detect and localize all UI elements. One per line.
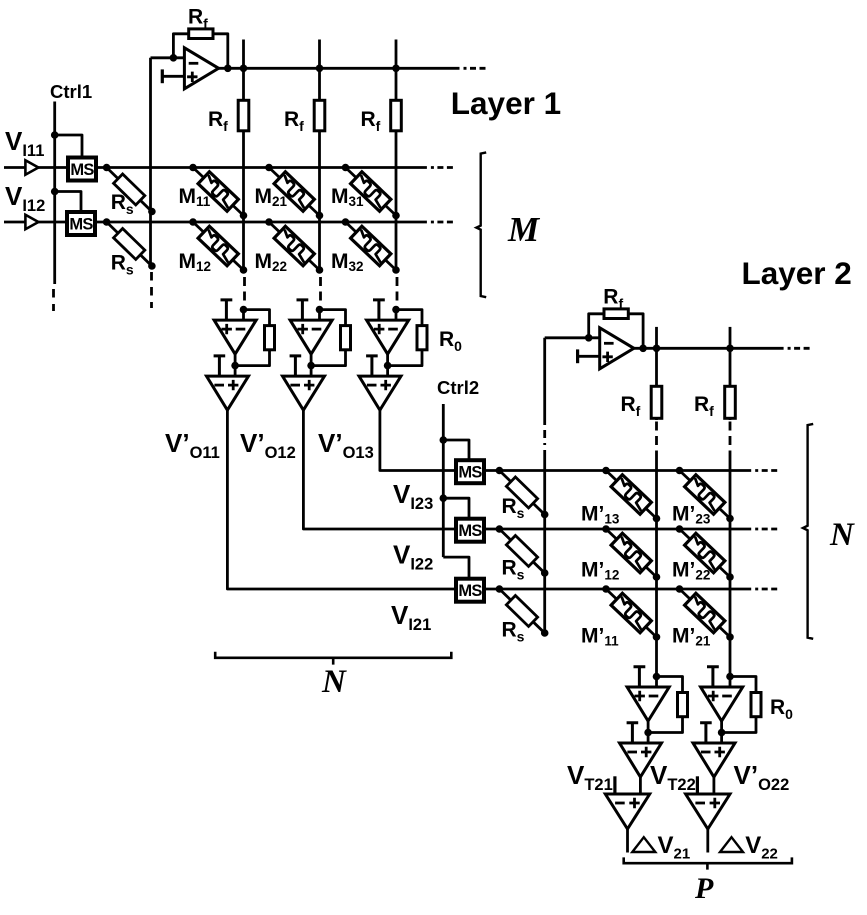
wire layer-1 column 1 [242, 68, 245, 271]
node U2 output [231, 362, 239, 370]
wire U2 output [234, 354, 237, 366]
wire layer-1 column 1 stub above output row [242, 40, 245, 69]
op-amp U9 [627, 687, 669, 721]
svg-text:Layer 1: Layer 1 [451, 85, 561, 121]
wire row 1 dash-dot continuation [431, 166, 453, 169]
wire U6 feedback bottom [388, 350, 422, 366]
wire layer-2 summing column lower [543, 451, 546, 634]
ground U6 non-inverting input [373, 300, 385, 320]
resistor Rs row 1 (layer 1) [102, 163, 156, 216]
memristor M'21 [674, 583, 736, 643]
resistor Rf feedback U8 (layer 2 summing amplifier) [604, 309, 628, 319]
node U8 output / column 1 [653, 345, 661, 353]
wire VT22 threshold input of U14 (comparator column 2) [696, 776, 699, 794]
resistor R0 feedback of U6 [417, 326, 427, 350]
wire layer-2 column 1 dashed [655, 422, 658, 457]
wire row 1 (layer 1) [96, 166, 427, 169]
node U6 output [384, 362, 392, 370]
svg-text:P: P [694, 872, 714, 905]
ground bar U8 (layer 2 summing amplifier) non-inverting input [576, 349, 579, 363]
svg-text:MS: MS [458, 582, 482, 600]
wire layer-2 column 2 below Rf [729, 418, 732, 420]
wire U1 output row [219, 67, 460, 70]
resistor Rs row 2 (layer 1) [102, 217, 156, 270]
switch MS2 (row 2, layer 1) [67, 212, 95, 235]
wire layer-1 column 2 dashed continuation [319, 277, 322, 302]
ground U4 non-inverting input [297, 300, 309, 320]
wire U2 feedback top [244, 310, 270, 326]
svg-text:N: N [829, 517, 855, 553]
wire layer-2 column 1 below Rf [655, 418, 658, 420]
wire layer-1 column 3 [395, 68, 398, 271]
switch MS1 (row 1, layer 1) [68, 158, 96, 181]
wire U12 non-inverting input [720, 733, 723, 744]
wire U2 feedback bottom [235, 350, 269, 366]
wire U2 inverting input [242, 310, 245, 321]
wire layer-2 column 2 upper [729, 348, 732, 386]
label deltaV21 [632, 837, 655, 852]
wire layer-1 column 3 dashed continuation [396, 277, 399, 302]
wire buffer to MS2 [38, 221, 68, 224]
node column input U4 [316, 306, 324, 314]
wire U9 feedback bottom [648, 717, 682, 733]
wire layer-2 column 2 dashed [729, 422, 732, 457]
node U1 output / column 3 [392, 65, 400, 73]
wire layer-2 summing column dash-dot [543, 423, 546, 451]
svg-text:M: M [507, 210, 541, 249]
wire U11 output [720, 721, 723, 733]
node U8 output / column 2 [726, 345, 734, 353]
resistor Rf column 1 (layer 1) [238, 100, 249, 131]
op-amp U13 (comparator column 1) [605, 794, 649, 829]
ground U5 inverting input [290, 356, 302, 376]
wire Ctrl1 hook to switch MS2 [55, 192, 81, 213]
wire U6 output [386, 354, 389, 366]
node Ctrl2 to MS3 [440, 436, 448, 444]
wire row 2 dash-dot continuation [431, 221, 453, 224]
resistor Rf column 2 (layer 2) [725, 386, 736, 418]
node U1 (layer 1 summing amplifier) inverting input [170, 54, 178, 62]
wire U8 (layer 2 summing amplifier) feedback left [589, 314, 604, 338]
wire U3 non-inverting input [234, 366, 237, 377]
memristor M'11 [600, 583, 662, 643]
wire layer-1 column 2 [318, 68, 321, 271]
wire U8 output row [634, 347, 784, 350]
wire layer-1 column 2 stub above output row [318, 40, 321, 69]
wire U4 output [310, 354, 313, 366]
wire row 1 (layer 2) dash-dot continuation [755, 469, 777, 472]
node Ctrl1 to MS2 [51, 188, 59, 196]
op-amp U5 [283, 376, 325, 410]
memristor M32 [340, 216, 402, 276]
wire U4 feedback top [320, 310, 346, 326]
wire U6 feedback top [396, 310, 422, 326]
ground U7 inverting input [366, 356, 378, 376]
wire U9 inverting input [655, 677, 658, 688]
node U1 output / column 1 [240, 65, 248, 73]
wire U4 feedback bottom [311, 350, 345, 366]
wire U4 inverting input [318, 310, 321, 321]
wire row 1 (layer 2) from switch [484, 469, 751, 472]
wire U8 (layer 2 summing amplifier) feedback right [628, 314, 643, 349]
resistor Rf feedback U1 (layer 1 summing amplifier) [189, 29, 213, 39]
wire Ctrl2 hook to switch MS5 [443, 557, 469, 577]
memristor M31 [340, 162, 402, 222]
wire U9 output [647, 721, 650, 733]
wire U14 (comparator column 2) output [706, 829, 709, 853]
wire U1 output row dash-dot continuation [464, 67, 486, 70]
svg-text:Ctrl1: Ctrl1 [50, 81, 92, 102]
memristor M'13 [600, 465, 662, 525]
resistor R0 feedback of U4 [341, 326, 351, 350]
node U1 output / column 2 [316, 65, 324, 73]
wire row 3 (layer 2) dash-dot continuation [755, 588, 777, 591]
op-amp U2 [214, 320, 256, 354]
bracket N (row count, layer 2) [803, 424, 813, 639]
wire buffer to MS1 [38, 166, 68, 169]
wire U13 (comparator column 1) non-inverting input [639, 777, 642, 794]
buffer amplifier VI12 input [25, 215, 38, 229]
resistor Rf column 2 (layer 1) [314, 100, 325, 131]
svg-text:Ctrl2: Ctrl2 [437, 377, 479, 398]
resistor Rf column 1 (layer 2) [651, 386, 662, 418]
op-amp U12 [693, 743, 735, 777]
wire U8 output row dash-dot continuation [788, 347, 810, 350]
op-amp U7 [359, 376, 401, 410]
node U8 (layer 2 summing amplifier) output-feedback junction [639, 345, 647, 353]
wire Ctrl2 hook to switch MS4 [443, 498, 469, 517]
wire U11 feedback bottom [722, 717, 756, 733]
memristor M'23 [674, 465, 736, 525]
ground U12 inverting input [700, 723, 712, 743]
switch MS4 row 2 (layer 2) [456, 519, 484, 542]
wire layer-2 column 1 stub above output row [655, 327, 658, 348]
wire U9 feedback top [657, 677, 683, 693]
wire layer-1 summing column dashed continuation [150, 272, 153, 308]
wire U11 inverting input [729, 677, 732, 688]
wire VT21 threshold input of U13 (comparator column 1) [613, 776, 616, 794]
resistor Rs row 2 (layer 2) [495, 524, 549, 577]
wire layer-2 column 1 lower [655, 456, 658, 677]
svg-text:MS: MS [70, 161, 94, 179]
node Ctrl1 to MS1 [51, 131, 59, 139]
op-amp U8 (layer 2 summing amplifier) [600, 328, 634, 369]
wire U7 non-inverting input [386, 366, 389, 377]
wire layer-1 column 3 stub above output row [395, 40, 398, 69]
ground U10 inverting input [627, 723, 639, 743]
wire U6 inverting input [395, 310, 398, 321]
svg-text:N: N [321, 664, 347, 700]
ground U9 non-inverting input [634, 667, 646, 687]
svg-text:Layer 2: Layer 2 [742, 255, 852, 291]
wire row 2 (layer 2) from switch [484, 528, 751, 531]
op-amp U11 [701, 687, 743, 721]
wire U1 (layer 1 summing amplifier) feedback right [213, 34, 228, 69]
memristor M'12 [600, 523, 662, 583]
node Ctrl2 to MS4 [440, 494, 448, 502]
node column input U2 [240, 306, 248, 314]
wire Ctrl2 line [442, 404, 445, 557]
svg-text:MS: MS [458, 522, 482, 540]
memristor M11 [187, 162, 249, 222]
memristor M12 [187, 216, 249, 276]
wire layer-2 column 2 stub above output row [729, 327, 732, 348]
resistor R0 feedback of U2 [265, 326, 275, 350]
switch MS3 row 1 (layer 2) [456, 460, 484, 483]
node U4 output [307, 362, 315, 370]
wire layer-2 column 2 lower [729, 456, 732, 677]
node column input U6 [392, 306, 400, 314]
node U8 (layer 2 summing amplifier) inverting input [585, 334, 593, 342]
wire VI12 input lead [4, 221, 25, 224]
wire V'O12 output [303, 410, 456, 529]
wire U8 (layer 2 summing amplifier) non-inverting input [578, 355, 600, 358]
switch MS5 row 3 (layer 2) [456, 579, 484, 602]
wire row 2 (layer 1) [95, 221, 427, 224]
ground U3 inverting input [214, 356, 226, 376]
wire U13 (comparator column 1) output [626, 829, 629, 853]
resistor R0 feedback of U11 [751, 693, 761, 717]
op-amp U10 [620, 743, 662, 777]
op-amp U4 [290, 320, 332, 354]
wire layer-1 summing column (U1 inverting input) [149, 58, 152, 265]
op-amp U3 [207, 376, 249, 410]
node U1 (layer 1 summing amplifier) output-feedback junction [224, 65, 232, 73]
wire U10 non-inverting input [647, 733, 650, 744]
svg-text:MS: MS [69, 215, 93, 233]
memristor M'22 [674, 523, 736, 583]
op-amp U6 [367, 320, 409, 354]
bracket N (column count, layer 1) [215, 652, 451, 665]
label deltaV22 [720, 837, 743, 852]
bracket P (output count) [624, 857, 792, 869]
resistor Rs row 3 (layer 2) [495, 584, 549, 637]
wire layer-2 summing column (U8 inverting input) [543, 338, 546, 423]
wire U5 non-inverting input [310, 366, 313, 377]
node U11 output [718, 729, 726, 737]
op-amp U14 (comparator column 2) [686, 794, 730, 829]
wire V'O11 output [227, 410, 456, 589]
wire Ctrl1 hook to switch MS1 [55, 135, 82, 158]
node column input U11 [726, 673, 734, 681]
ground bar U1 (layer 1 summing amplifier) non-inverting input [161, 69, 164, 83]
resistor Rs row 1 (layer 2) [495, 466, 549, 519]
resistor Rf column 3 (layer 1) [391, 100, 402, 131]
ground U2 non-inverting input [221, 300, 233, 320]
wire VI11 input lead [4, 166, 25, 169]
wire U11 feedback top [730, 677, 756, 693]
buffer amplifier VI11 input [25, 160, 38, 174]
wire U1 (layer 1 summing amplifier) feedback left [173, 34, 188, 58]
wire U14 (comparator column 2) non-inverting input [713, 777, 716, 794]
wire Ctrl2 hook to switch MS3 [443, 440, 469, 459]
resistor R0 left feedback of U9 [678, 693, 688, 717]
node U9 output [644, 729, 652, 737]
wire U8 (layer 2 summing amplifier) inverting input [545, 336, 600, 339]
node column input U9 [653, 673, 661, 681]
wire row 3 (layer 2) from switch [484, 588, 751, 591]
wire layer-2 column 1 upper [655, 348, 658, 386]
wire U1 (layer 1 summing amplifier) inverting input [151, 56, 185, 59]
ground U11 non-inverting input [707, 667, 719, 687]
wire Ctrl1 line [53, 102, 56, 285]
op-amp U1 (layer 1 summing amplifier) [184, 48, 218, 89]
bracket M (row count, layer 1) [476, 152, 486, 297]
wire layer-1 column 1 dashed continuation [243, 277, 246, 302]
memristor M22 [263, 216, 325, 276]
memristor M21 [263, 162, 325, 222]
wire row 2 (layer 2) dash-dot continuation [755, 528, 777, 531]
wire V'O13 output [380, 410, 456, 470]
wire Ctrl1 dashed continuation [52, 289, 55, 311]
svg-text:MS: MS [458, 464, 482, 482]
wire U1 (layer 1 summing amplifier) non-inverting input [162, 75, 184, 78]
